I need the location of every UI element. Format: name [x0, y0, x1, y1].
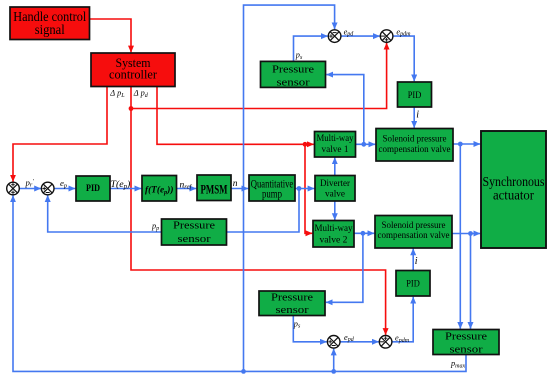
svg-text:sensor: sensor: [277, 77, 310, 89]
svg-text:Multi-way: Multi-way: [315, 223, 353, 234]
svg-text:n: n: [233, 179, 238, 189]
wire: junction 1 to junction 2 (blue): [341, 35, 380, 37]
svg-text:valve 1: valve 1: [322, 144, 349, 155]
svg-text:Pressure: Pressure: [272, 64, 314, 76]
block: Multi-way valve 2: [313, 221, 354, 248]
wire: handle signal to system controller (red): [90, 19, 132, 52]
svg-text:PID: PID: [406, 279, 420, 289]
wire: pump pressure tap to mid sensor (blue): [227, 189, 300, 233]
wire: bottom-left sensor to junction 3 (blue): [293, 316, 327, 342]
block: Pressure sensor (top): [261, 61, 326, 88]
wire: mid sensor to junction B (blue): [48, 195, 162, 232]
svg-text:Pressure: Pressure: [445, 330, 487, 342]
wire: node 2 down to bottom-right sensor (blue): [470, 234, 472, 329]
block: PID (top right): [398, 82, 432, 107]
wire: controller output to multi-way valve 1 (red): [157, 87, 314, 145]
wire: junction 2 to top PID (blue): [393, 36, 414, 81]
svg-text:pump: pump: [262, 187, 282, 201]
wire: solenoid valve 1 to actuator (blue): [453, 143, 480, 145]
wire: PID to f(T(ep)) (blue): [110, 188, 141, 190]
svg-text:Solenoid pressure: Solenoid pressure: [383, 134, 447, 144]
junction dot: dP_d branch: [129, 106, 134, 111]
summing junction 4 (e_pdm bottom): [379, 336, 392, 349]
wire: p_max long feedback (blue): [13, 195, 466, 371]
svg-text:PMSM: PMSM: [201, 182, 228, 197]
svg-text:i: i: [416, 110, 419, 121]
wire: node B down to bottom-left sensor (blue): [326, 233, 363, 302]
summing junction B (e_p): [41, 182, 54, 195]
svg-text:valve: valve: [325, 188, 346, 199]
svg-text:Pressure: Pressure: [271, 292, 313, 304]
wire: diverter valve up to MWV1 (blue): [334, 157, 336, 175]
block: Diverter valve: [315, 176, 355, 202]
junction dot: p_max bottom branch: [331, 369, 336, 374]
svg-text:PID: PID: [408, 91, 422, 101]
svg-text:sensor: sensor: [276, 304, 309, 316]
wire: junction 4 to bottom PID (blue): [392, 297, 413, 342]
wire: branch to multi-way valve 2 (red): [305, 144, 312, 233]
svg-text:i: i: [415, 256, 418, 267]
block: Multi-way valve 1: [315, 132, 356, 158]
block: f(T(ep)): [142, 176, 177, 202]
svg-text:T(ep): T(ep): [111, 179, 131, 190]
block: Synchronous actuator: [481, 131, 546, 248]
svg-text:valve 2: valve 2: [320, 235, 348, 246]
wire: dP_d branch to top junction 2 (red): [131, 43, 387, 109]
block: PID (bottom): [396, 271, 430, 297]
junction dot: red branch: [303, 142, 308, 147]
svg-text:Solenoid pressure: Solenoid pressure: [382, 220, 446, 230]
summing junction 2 (e_pdm top): [380, 30, 393, 43]
block: Pressure sensor (middle): [162, 219, 227, 245]
wire: dP_d trunk down to bottom junction 4 (red): [131, 87, 386, 335]
wire: pump to diverter valve (blue): [295, 188, 314, 190]
wire: p_max branch to bottom junction 3 (blue): [333, 349, 335, 372]
block: Pressure sensor (bottom right): [433, 330, 499, 356]
wire: junction A to junction B (blue): [20, 188, 42, 190]
junction dot: p_max top branch: [241, 369, 246, 374]
wire: MWV1 to solenoid valve 1 (blue): [356, 143, 376, 145]
wire: bottom PID up to solenoid valve 2 (blue): [412, 249, 414, 271]
wire: PMSM to quantitative pump (blue): [231, 188, 248, 190]
block: System controller: [91, 53, 175, 87]
block: PMSM: [197, 175, 231, 201]
wire: dP_L output to junction A (red): [13, 87, 107, 182]
svg-text:compensation valve: compensation valve: [378, 230, 450, 240]
wire: node down to bottom-right sensor (blue): [459, 144, 461, 329]
summing junction A (p_r): [7, 182, 20, 195]
block: PID (left): [76, 176, 110, 201]
svg-text:compensation valve: compensation valve: [379, 144, 451, 154]
wire: diverter valve down to MWV2 (blue): [334, 201, 336, 220]
svg-text:actuator: actuator: [493, 188, 534, 203]
block: Solenoid pressure compensation valve (bottom): [375, 216, 452, 249]
junction dot: SPCV1 output node: [458, 142, 463, 147]
svg-text:sensor: sensor: [450, 343, 483, 355]
svg-text:f(T(ep)): f(T(ep)): [145, 185, 173, 197]
wire: junction B to PID (blue): [55, 188, 76, 190]
svg-text:signal: signal: [35, 22, 65, 37]
wire: junction 3 to junction 4 (blue): [340, 341, 379, 343]
junction dot: pump tap: [297, 186, 302, 191]
wire: node A up to top sensor (blue): [326, 75, 363, 145]
svg-text:Multi-way: Multi-way: [317, 133, 354, 144]
wire: p_max branch to top junction 1 (blue): [244, 5, 335, 371]
summing junction 1 (e_pd top): [328, 30, 341, 43]
svg-text:controller: controller: [109, 67, 158, 82]
block: Solenoid pressure compensation valve (top): [376, 129, 453, 162]
svg-text:Pressure: Pressure: [173, 220, 215, 232]
wire: top sensor to junction 1 (blue): [294, 36, 328, 61]
svg-text:sensor: sensor: [178, 233, 211, 245]
block: Quantitative pump: [249, 175, 295, 201]
wire: solenoid valve 2 to actuator (blue): [452, 233, 480, 235]
block: Handle control signal: [10, 7, 90, 40]
wire: top PID to solenoid valve 1 (blue): [413, 107, 415, 128]
junction dot: node B: [361, 231, 366, 236]
wire: f(T(ep)) to PMSM (blue): [177, 188, 197, 190]
block: Pressure sensor (bottom left): [259, 291, 325, 316]
junction dot: SPCV2 output node: [468, 231, 473, 236]
summing junction 3 (e_pd bottom): [327, 336, 340, 349]
junction dot: node A: [361, 142, 366, 147]
wire: MWV2 to solenoid valve 2 (blue): [354, 232, 374, 234]
svg-text:PID: PID: [86, 184, 100, 194]
